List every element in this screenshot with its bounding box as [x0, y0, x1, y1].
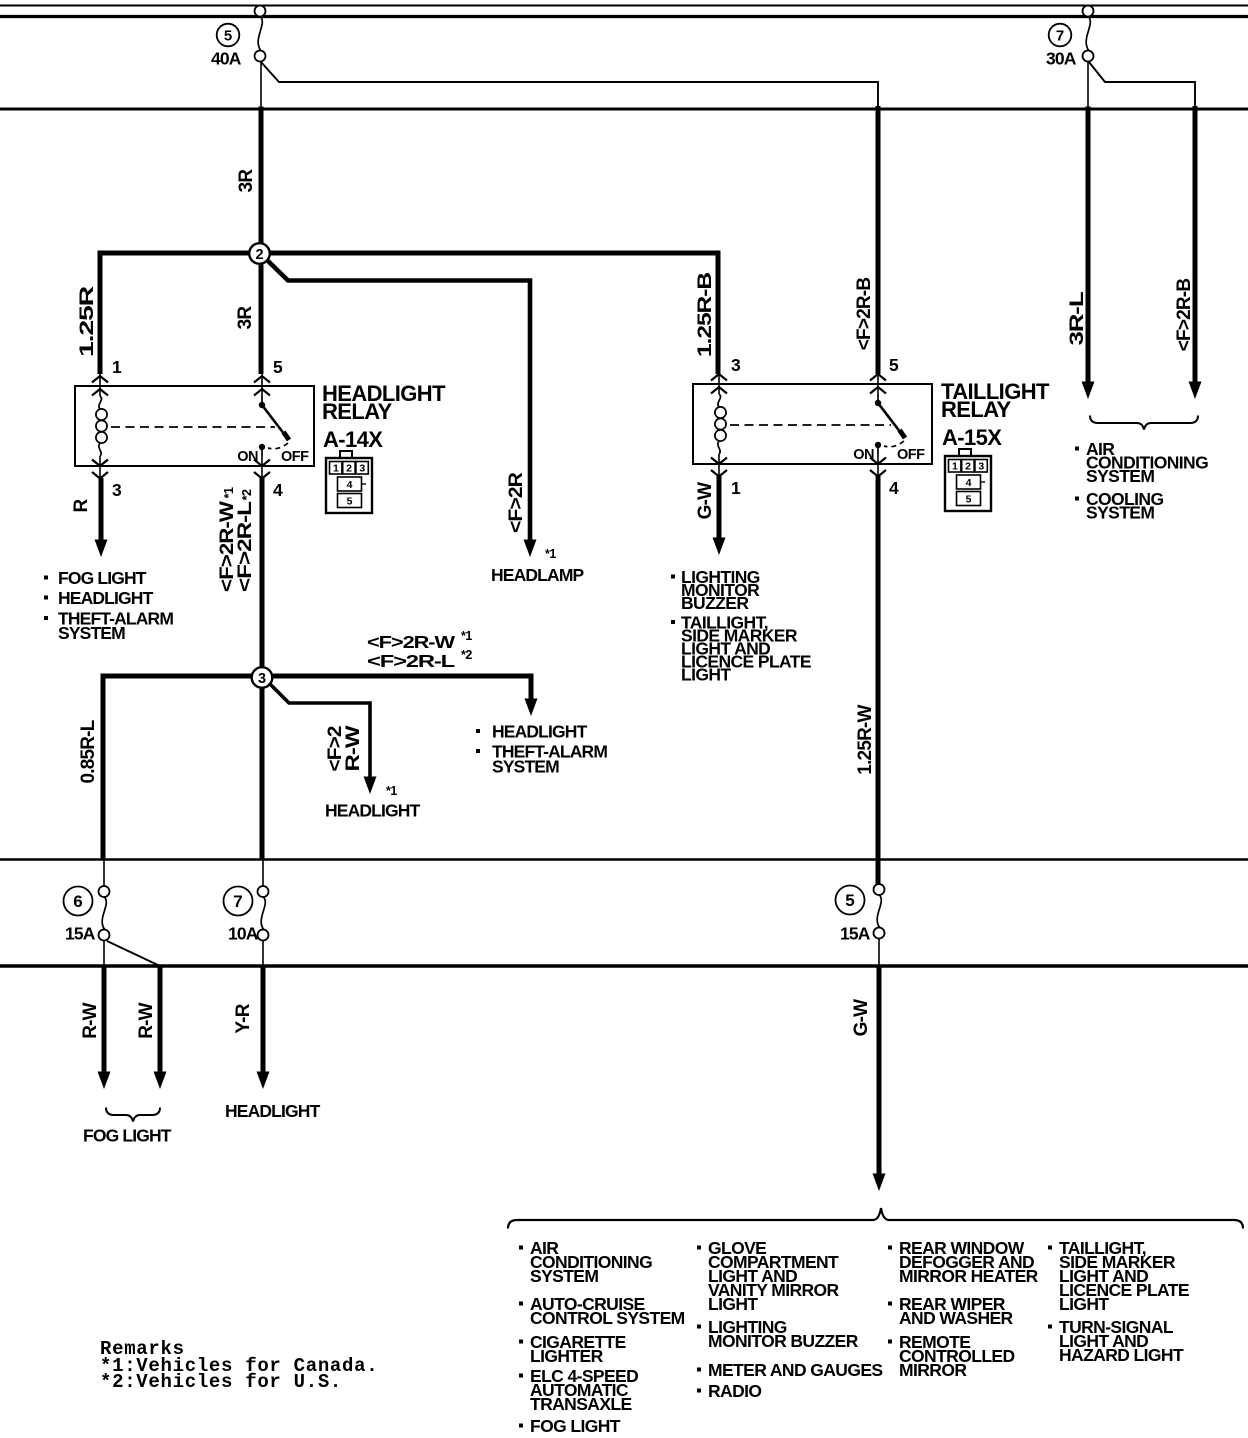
- svg-text:*1: *1: [461, 629, 472, 643]
- svg-text:40A: 40A: [211, 49, 242, 69]
- svg-text:HEADLAMP: HEADLAMP: [491, 565, 585, 585]
- svg-text:2: 2: [346, 463, 352, 475]
- svg-text:LIGHT: LIGHT: [1059, 1294, 1109, 1314]
- svg-text:3: 3: [112, 480, 122, 500]
- svg-text:3R-L: 3R-L: [1067, 291, 1088, 346]
- node 3 junction: [252, 667, 273, 688]
- brace for air conditioning / cooling system: [1090, 416, 1198, 430]
- svg-text:1: 1: [952, 461, 958, 473]
- bus line (middle): [0, 858, 1248, 860]
- svg-text:HEADLIGHT: HEADLIGHT: [58, 588, 154, 608]
- svg-text:<F>2R-L: <F>2R-L: [235, 500, 256, 592]
- svg-text:3: 3: [359, 463, 365, 475]
- destination: lighting monitor buzzer / taillight side marker licence plate: [671, 575, 675, 579]
- svg-text:6: 6: [73, 892, 82, 911]
- svg-text:1: 1: [112, 357, 122, 377]
- svg-text:3R: 3R: [235, 306, 256, 330]
- svg-text:*2: *2: [240, 489, 254, 500]
- wire R-W (right): [158, 966, 163, 1072]
- svg-text:3R: 3R: [236, 169, 257, 193]
- fuse 7 30A: [1083, 6, 1094, 17]
- wire branch from fuse 5 to <F>2R-B (taillight relay pin 5): [261, 62, 878, 107]
- svg-text:15A: 15A: [65, 924, 96, 944]
- svg-text:3: 3: [978, 461, 984, 473]
- svg-text:*2: *2: [461, 648, 472, 662]
- svg-text:HEADLIGHT: HEADLIGHT: [225, 1101, 321, 1121]
- svg-text:MONITOR BUZZER: MONITOR BUZZER: [708, 1331, 859, 1351]
- svg-text:ON: ON: [237, 449, 258, 465]
- svg-text:Y-R: Y-R: [233, 1003, 254, 1033]
- svg-text:5: 5: [889, 355, 899, 375]
- svg-text:MIRROR HEATER: MIRROR HEATER: [899, 1266, 1039, 1286]
- svg-text:G-W: G-W: [851, 999, 872, 1037]
- svg-text:FOG LIGHT: FOG LIGHT: [83, 1126, 172, 1146]
- svg-text:HAZARD LIGHT: HAZARD LIGHT: [1059, 1345, 1184, 1365]
- svg-text:0.85R-L: 0.85R-L: [78, 719, 99, 783]
- node 3 bus wire: [103, 676, 531, 859]
- wire G-W from taillight relay pin 1: [717, 476, 722, 538]
- svg-text:LIGHTER: LIGHTER: [530, 1346, 604, 1366]
- brace accessory list: [508, 1208, 1243, 1229]
- svg-text:5: 5: [273, 357, 283, 377]
- svg-text:G-W: G-W: [695, 482, 716, 520]
- svg-text:R-W: R-W: [136, 1002, 157, 1038]
- svg-text:1.25R-W: 1.25R-W: [855, 704, 876, 774]
- svg-text:*1: *1: [386, 784, 397, 798]
- power bus line (below fuses, full width): [0, 108, 1248, 111]
- svg-text:4: 4: [273, 480, 283, 500]
- svg-text:R-W: R-W: [80, 1002, 101, 1038]
- svg-text:HEADLIGHT: HEADLIGHT: [492, 722, 588, 742]
- destination: air conditioning system / cooling system: [1075, 447, 1079, 451]
- svg-text:AND WASHER: AND WASHER: [899, 1308, 1014, 1328]
- wire <F>2R from node 2 to headlamp: [267, 260, 530, 542]
- destination list column 2: [697, 1246, 701, 1250]
- power bus line (top thick): [0, 15, 1248, 18]
- svg-text:CONTROL SYSTEM: CONTROL SYSTEM: [530, 1308, 685, 1328]
- taillight relay A-15X: [693, 384, 932, 464]
- destination list column 1: [519, 1246, 523, 1250]
- svg-text:HEADLIGHT: HEADLIGHT: [325, 801, 421, 821]
- wire from fuse 5 (15A) to lower bus: [878, 938, 880, 966]
- svg-text:1: 1: [333, 463, 339, 475]
- svg-text:4: 4: [889, 478, 899, 498]
- fuse 5 15A: [874, 884, 885, 895]
- svg-text:5: 5: [966, 494, 972, 506]
- svg-text:7: 7: [1056, 28, 1064, 45]
- svg-text:R: R: [71, 498, 92, 512]
- svg-text:2: 2: [965, 461, 971, 473]
- brace fog light: [106, 1108, 160, 1122]
- fuse 6 15A: [103, 859, 105, 887]
- svg-text:FOG LIGHT: FOG LIGHT: [58, 568, 147, 588]
- svg-text:RELAY: RELAY: [941, 397, 1011, 422]
- wire G-W (bottom) to accessory loads: [877, 966, 882, 1174]
- headlight relay A-14X: [75, 386, 314, 466]
- svg-text:BUZZER: BUZZER: [681, 593, 749, 613]
- power bus line (top thin): [0, 5, 1248, 7]
- destination list column 4: [1048, 1246, 1052, 1250]
- svg-text:LIGHT: LIGHT: [681, 665, 731, 685]
- svg-text:3: 3: [258, 671, 266, 687]
- svg-text:<F>2R-B: <F>2R-B: [1174, 279, 1195, 352]
- wire R-W (left): [102, 966, 107, 1072]
- wire to headlight / theft-alarm (right of node 3): [525, 699, 538, 717]
- svg-text:1: 1: [731, 478, 741, 498]
- destination list column 3: [888, 1246, 892, 1250]
- svg-text:15A: 15A: [840, 924, 871, 944]
- svg-text:ON: ON: [853, 447, 874, 463]
- svg-text:4: 4: [966, 477, 972, 489]
- bus line (lower thick): [0, 964, 1248, 967]
- svg-text:SYSTEM: SYSTEM: [1086, 466, 1154, 486]
- svg-text:2: 2: [255, 247, 263, 263]
- fuse 7 10A: [262, 859, 264, 887]
- wire Y-R to headlight: [261, 966, 266, 1072]
- svg-text:<F>2R-L: <F>2R-L: [367, 651, 456, 671]
- svg-text:A-14X: A-14X: [323, 427, 383, 452]
- svg-text:RADIO: RADIO: [708, 1381, 761, 1401]
- svg-text:3: 3: [731, 355, 741, 375]
- svg-text:<F>2R-B: <F>2R-B: [854, 278, 875, 351]
- svg-text:<F>2R-W: <F>2R-W: [367, 632, 456, 652]
- svg-text:*1: *1: [222, 487, 236, 498]
- svg-text:5: 5: [224, 28, 232, 45]
- svg-text:METER AND GAUGES: METER AND GAUGES: [708, 1360, 882, 1380]
- node 2 junction: [249, 243, 270, 264]
- wire from fuse 7 (10A) to lower bus: [262, 940, 264, 966]
- svg-text:4: 4: [347, 479, 353, 491]
- svg-text:SYSTEM: SYSTEM: [58, 623, 125, 643]
- destination: headlight / theft-alarm system: [476, 729, 480, 733]
- wire branch from fuse 7 to <F>2R-B (right): [1089, 62, 1195, 107]
- svg-text:R-W: R-W: [343, 725, 364, 771]
- wire <F>2R-W / <F>2R-L from relay pin 4 to node 3 and bus: [260, 478, 265, 859]
- svg-text:1.25R-B: 1.25R-B: [695, 273, 716, 357]
- wire from fuse 6 to lower bus (diagonal): [107, 941, 160, 966]
- wire R from relay pin 3 to fog light etc: [99, 478, 104, 540]
- svg-text:30A: 30A: [1046, 49, 1077, 69]
- wire 3R-L from fuse 7 down: [1087, 56, 1089, 108]
- wire <F>2R-W to headlight (*1): [269, 683, 370, 778]
- fuse 5 40A: [255, 6, 266, 17]
- wire from fuse 6 to lower bus (straight): [103, 940, 105, 966]
- svg-text:RELAY: RELAY: [322, 399, 392, 424]
- svg-text:SYSTEM: SYSTEM: [1086, 503, 1154, 523]
- svg-text:10A: 10A: [228, 924, 259, 944]
- svg-text:*2:Vehicles for U.S.: *2:Vehicles for U.S.: [100, 1371, 342, 1393]
- svg-text:SYSTEM: SYSTEM: [492, 757, 559, 777]
- svg-text:SYSTEM: SYSTEM: [530, 1266, 598, 1286]
- svg-text:A-15X: A-15X: [942, 425, 1002, 450]
- svg-text:1.25R: 1.25R: [77, 285, 98, 357]
- svg-text:*1: *1: [545, 547, 556, 561]
- svg-text:LIGHT: LIGHT: [708, 1294, 758, 1314]
- wire 3R from fuse 5 down to node 2: [260, 56, 262, 108]
- node 2 bus wire (1.25R / 3R / 1.25R-B): [100, 253, 718, 374]
- svg-text:OFF: OFF: [281, 449, 309, 465]
- svg-text:<F>2R: <F>2R: [506, 472, 527, 533]
- svg-text:MIRROR: MIRROR: [899, 1360, 967, 1380]
- svg-text:TRANSAXLE: TRANSAXLE: [530, 1394, 632, 1414]
- svg-text:5: 5: [347, 496, 353, 508]
- svg-text:7: 7: [233, 892, 242, 911]
- wire 1.25R-W from taillight relay pin 4 to fuse 5 (15A): [876, 476, 881, 884]
- svg-text:OFF: OFF: [897, 447, 925, 463]
- destination: fog light / headlight / theft-alarm system: [44, 576, 48, 580]
- svg-text:FOG LIGHT: FOG LIGHT: [530, 1416, 621, 1436]
- svg-text:5: 5: [845, 891, 854, 910]
